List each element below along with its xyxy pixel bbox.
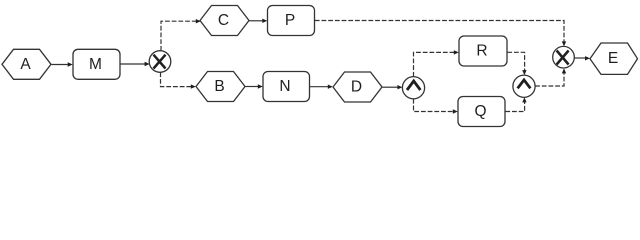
wire B to N	[246, 84, 263, 88]
hexagon D	[333, 72, 382, 102]
svg-text:B: B	[214, 78, 224, 95]
wire P to X2 (dashed elbow)	[315, 21, 566, 47]
wire AND1 to Q (dashed elbow)	[414, 99, 458, 114]
wire AND2 to X2 (dashed elbow)	[535, 68, 566, 86]
wire C to P	[250, 19, 268, 23]
wire X1 to C (dashed elbow)	[161, 19, 201, 51]
wire X1 to B (dashed elbow)	[161, 72, 196, 89]
hexagon B	[196, 72, 245, 102]
wire X2 to E	[574, 56, 590, 60]
task M	[73, 49, 120, 79]
task P	[268, 6, 315, 36]
AND gateway 2	[513, 75, 535, 97]
wire M to X1	[121, 62, 150, 66]
task N	[263, 72, 310, 102]
XOR gateway X2	[553, 46, 575, 68]
hexagon A	[2, 49, 51, 79]
svg-text:N: N	[279, 78, 290, 95]
wire N to D	[310, 85, 333, 89]
wire D to AND1	[383, 85, 403, 89]
svg-text:Q: Q	[474, 103, 486, 120]
wire A to M	[52, 62, 73, 66]
svg-text:P: P	[285, 12, 295, 29]
hexagon C	[200, 6, 249, 36]
hexagon E	[590, 43, 638, 74]
svg-text:M: M	[89, 56, 102, 73]
wire AND1 to R (dashed elbow)	[414, 50, 459, 76]
svg-text:D: D	[351, 79, 362, 96]
wire Q to AND2 (dashed elbow)	[505, 97, 526, 111]
svg-text:A: A	[20, 56, 31, 73]
XOR gateway X1	[149, 51, 171, 73]
svg-text:E: E	[608, 50, 618, 67]
task Q	[458, 97, 505, 127]
svg-text:R: R	[476, 43, 487, 60]
AND gateway 1	[402, 77, 424, 99]
svg-text:C: C	[218, 12, 229, 29]
task R	[459, 36, 507, 66]
wire R to AND2 (dashed elbow)	[507, 52, 526, 75]
